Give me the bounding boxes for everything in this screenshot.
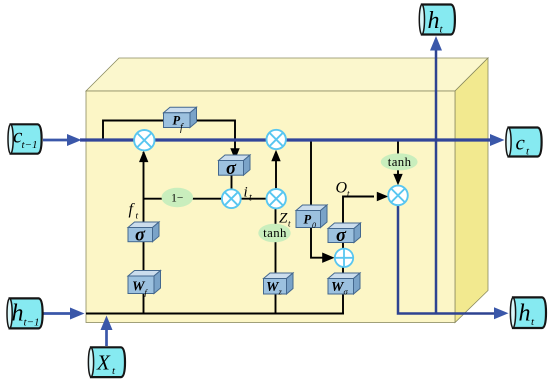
svg-text:h: h [519, 301, 531, 327]
svg-text:c: c [516, 131, 526, 155]
svg-text:i: i [244, 185, 248, 201]
box sigma_i [219, 155, 251, 179]
cylinder h_t right [510, 297, 546, 328]
arrow from X_t up into rail [105, 330, 108, 346]
svg-text:h: h [428, 8, 440, 34]
label O_t [336, 180, 351, 199]
svg-text:Z: Z [279, 211, 288, 227]
label i_t [244, 185, 253, 204]
wire: output chain vertical (rail, W_sigma, plus, sigma_o) [342, 235, 344, 314]
svg-text:z: z [278, 287, 283, 297]
box sigma_f [128, 222, 159, 246]
wire: tanh to output x-node arrow [397, 170, 399, 177]
svg-text:σ: σ [336, 226, 347, 246]
wire: z product up arrow into cell-line x-node [275, 152, 277, 190]
svg-text:O: O [336, 180, 348, 197]
svg-text:1−: 1− [171, 193, 183, 205]
ellipse tanh right [381, 153, 418, 170]
box W_f [128, 271, 161, 298]
svg-text:tanh: tanh [263, 226, 287, 240]
wire: input rail along box bottom [86, 312, 344, 314]
wire: sigma_i to x-node i stub [231, 175, 233, 190]
svg-text:tanh: tanh [388, 155, 412, 169]
svg-text:X: X [96, 351, 111, 375]
box P_f [164, 107, 197, 133]
wire: h output navy line down from output x-node and right to h_t [398, 205, 494, 314]
wire: peephole P_o path from cell line down through P_o to plus-node [311, 142, 324, 258]
wire: o_t from sigma_o up and right into output x-node [343, 197, 374, 231]
node: multiply output (o times tanh c) [388, 186, 408, 206]
arrowhead into h_t top [430, 36, 442, 51]
box sigma_o [328, 223, 361, 246]
node: multiply on cell line (forget) [134, 130, 154, 150]
label f_t [129, 201, 139, 222]
LSTM cell body 3D box: front face [86, 91, 455, 323]
wire: 1-minus horizontal from f junction to x-node i [144, 198, 223, 200]
node: multiply z (i times z) [267, 189, 286, 208]
svg-text:h: h [12, 301, 24, 327]
svg-text:σ: σ [135, 226, 146, 246]
svg-text:0: 0 [312, 221, 316, 230]
box P_o [296, 205, 327, 230]
wire: h output navy line up to h_t top [435, 50, 438, 314]
svg-text:t−1: t−1 [24, 317, 40, 329]
box W_sigma [328, 273, 360, 297]
ellipse 1-minus [162, 188, 194, 207]
wire: tanh stub from cell line down to tanh ellipse [397, 142, 399, 155]
svg-text:t−1: t−1 [22, 139, 38, 151]
ellipse tanh mid [258, 224, 290, 243]
cell state line c (navy) [80, 138, 490, 141]
svg-text:t: t [136, 212, 139, 222]
LSTM cell body 3D box: right face [455, 58, 488, 323]
cylinder h_t top [419, 5, 455, 36]
svg-text:t: t [249, 193, 252, 204]
arrow from c_{t-1} into box [43, 139, 68, 142]
arrow from h_{t-1} into box [43, 312, 71, 315]
label Z_t [279, 211, 291, 229]
cylinder c_t [506, 128, 542, 158]
svg-text:σ: σ [226, 159, 237, 179]
node: multiply i (1-f times sigma) [222, 189, 241, 208]
arrowhead into h_t right [494, 307, 509, 319]
wire: forget chain vertical (rail to x-node) [143, 152, 145, 314]
wire: i_t segment between x-nodes [240, 198, 267, 200]
node: plus (W_sigma x + P_o c) [335, 249, 353, 267]
LSTM cell body 3D box: top face [86, 58, 488, 91]
wire: peephole P_f path from cell line up over to sigma_i [103, 121, 235, 150]
box W_z [264, 273, 294, 297]
node: multiply on cell line (input) [267, 130, 286, 149]
cylinder X_t [88, 347, 125, 377]
wire: z chain vertical (rail, W_z, tanh, x-node) [275, 209, 277, 314]
cylinder h_{t-1} [7, 298, 43, 328]
svg-text:P: P [304, 213, 312, 227]
cylinder c_{t-1} [8, 124, 42, 154]
arrowhead into c_t [490, 134, 505, 146]
